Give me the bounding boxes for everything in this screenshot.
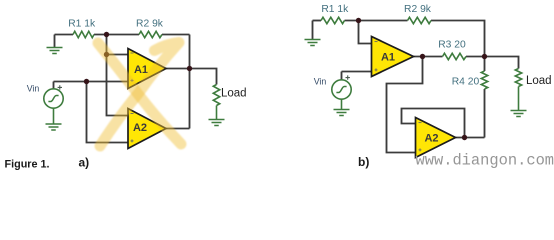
svg-text:A2: A2 xyxy=(133,122,147,134)
svg-text:R2 9k: R2 9k xyxy=(404,4,432,15)
svg-text:R2 9k: R2 9k xyxy=(136,18,164,29)
svg-text:A1: A1 xyxy=(381,52,395,64)
svg-text:b): b) xyxy=(358,155,369,169)
svg-text:R4 20: R4 20 xyxy=(452,77,480,88)
svg-text:Vin: Vin xyxy=(314,77,327,87)
svg-text:R1 1k: R1 1k xyxy=(321,4,349,15)
svg-text:R1 1k: R1 1k xyxy=(68,18,96,29)
svg-text:Figure 1.: Figure 1. xyxy=(5,159,50,171)
svg-text:Load: Load xyxy=(221,88,247,100)
svg-text:www.diangon.com: www.diangon.com xyxy=(416,152,554,170)
svg-text:Vin: Vin xyxy=(27,83,40,93)
svg-text:A2: A2 xyxy=(424,133,438,145)
svg-text:a): a) xyxy=(79,156,90,170)
svg-text:Load: Load xyxy=(526,75,552,87)
svg-text:R3 20: R3 20 xyxy=(438,40,466,51)
